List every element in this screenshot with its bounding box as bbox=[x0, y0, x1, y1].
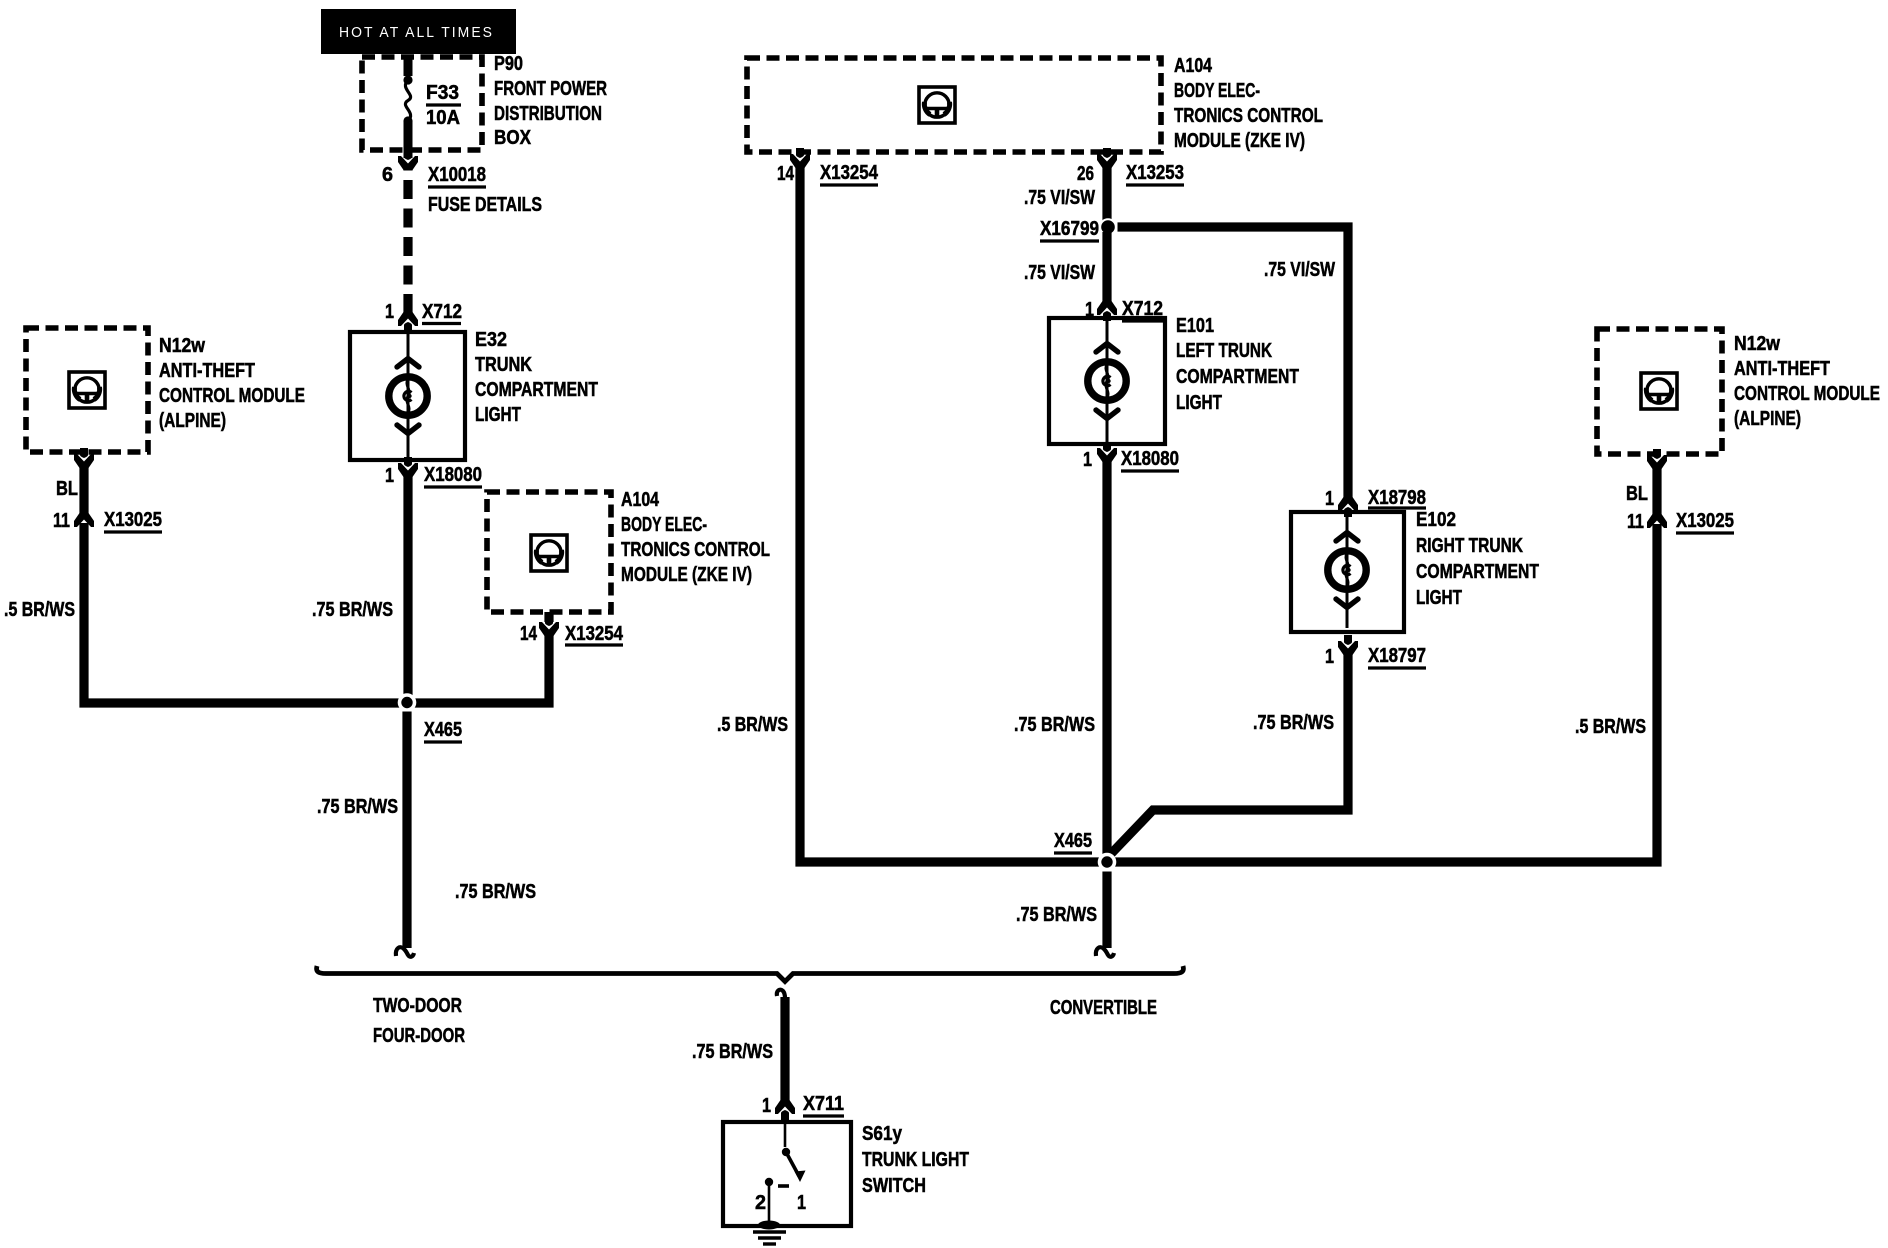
svg-text:1: 1 bbox=[762, 1095, 771, 1117]
bulb E32 lamp symbol bbox=[407, 332, 410, 460]
svg-text:6: 6 bbox=[382, 164, 393, 186]
svg-text:X13025: X13025 bbox=[104, 509, 162, 531]
svg-text:TWO-DOOR: TWO-DOOR bbox=[373, 995, 462, 1017]
svg-text:CONVERTIBLE: CONVERTIBLE bbox=[1050, 997, 1157, 1019]
svg-text:11: 11 bbox=[1627, 511, 1644, 533]
module A104 (mid) icon bbox=[531, 535, 567, 571]
svg-text:1: 1 bbox=[1083, 449, 1092, 471]
svg-text:X18797: X18797 bbox=[1368, 645, 1426, 667]
wire X465 left down to option bracket bbox=[402, 712, 411, 949]
wire X711 stub into switch bbox=[784, 1117, 787, 1124]
connector X712 pin 1 symbol (E32) bbox=[398, 312, 418, 326]
connector X13254 pin 14 symbol (mid) bbox=[539, 622, 559, 636]
svg-text:.5 BR/WS: .5 BR/WS bbox=[4, 599, 75, 621]
svg-text:ANTI-THEFT: ANTI-THEFT bbox=[1734, 358, 1830, 380]
svg-text:.5 BR/WS: .5 BR/WS bbox=[717, 714, 788, 736]
wire end hook (left drop) bbox=[396, 947, 414, 957]
fuse box P90 dashed outline bbox=[362, 57, 482, 150]
svg-text:X465: X465 bbox=[424, 719, 462, 741]
svg-text:.75 BR/WS: .75 BR/WS bbox=[312, 599, 393, 621]
connector symbol below N12w right bbox=[1647, 455, 1667, 469]
svg-text:E32: E32 bbox=[475, 329, 507, 351]
wire E101 to X465 right junction bbox=[1102, 460, 1111, 862]
svg-text:LIGHT: LIGHT bbox=[1176, 392, 1222, 414]
svg-text:2: 2 bbox=[755, 1192, 766, 1214]
svg-text:DISTRIBUTION: DISTRIBUTION bbox=[494, 103, 602, 125]
svg-text:MODULE (ZKE IV): MODULE (ZKE IV) bbox=[621, 564, 752, 586]
svg-text:TRUNK: TRUNK bbox=[475, 354, 532, 376]
svg-text:10A: 10A bbox=[426, 107, 460, 129]
svg-text:.75 VI/SW: .75 VI/SW bbox=[1264, 259, 1335, 281]
connector symbol below N12w left bbox=[74, 454, 94, 468]
svg-text:SWITCH: SWITCH bbox=[862, 1175, 926, 1197]
svg-text:.5 BR/WS: .5 BR/WS bbox=[1575, 716, 1646, 738]
svg-text:FRONT POWER: FRONT POWER bbox=[494, 78, 607, 100]
svg-text:CONTROL MODULE: CONTROL MODULE bbox=[159, 385, 305, 407]
svg-text:X10018: X10018 bbox=[428, 164, 486, 186]
switch S61y box outline bbox=[723, 1122, 851, 1226]
wire E102 to X465 right bbox=[1107, 653, 1348, 858]
wire N12w right to X13025 bbox=[1652, 467, 1661, 515]
svg-text:HOT AT ALL TIMES: HOT AT ALL TIMES bbox=[339, 24, 494, 41]
svg-text:1: 1 bbox=[385, 465, 394, 487]
svg-text:ANTI-THEFT: ANTI-THEFT bbox=[159, 360, 255, 382]
svg-text:X18798: X18798 bbox=[1368, 487, 1426, 509]
wire X13025 left down and to X465 bbox=[84, 523, 403, 703]
svg-text:(ALPINE): (ALPINE) bbox=[159, 410, 226, 432]
bulb E102 box outline bbox=[1291, 512, 1404, 632]
svg-text:X711: X711 bbox=[803, 1093, 844, 1115]
wire A104 top pin14 down to convertible bus bbox=[800, 167, 1102, 862]
svg-text:1: 1 bbox=[385, 301, 394, 323]
wire X13253 to X16799 bbox=[1102, 167, 1111, 222]
connector X18080 pin 1 symbol (E101) bbox=[1097, 448, 1117, 462]
wire X13025 right down to bus bbox=[1111, 524, 1657, 862]
svg-text:BODY ELEC-: BODY ELEC- bbox=[621, 514, 707, 536]
svg-text:.75 BR/WS: .75 BR/WS bbox=[1014, 714, 1095, 736]
svg-text:X18080: X18080 bbox=[1121, 448, 1179, 470]
wire A104 mid pin14 to X465 bbox=[405, 634, 549, 703]
svg-text:COMPARTMENT: COMPARTMENT bbox=[1176, 366, 1299, 388]
svg-text:14: 14 bbox=[520, 623, 538, 645]
svg-text:COMPARTMENT: COMPARTMENT bbox=[475, 379, 598, 401]
node X465 (left) junction bbox=[398, 693, 417, 712]
svg-text:BL: BL bbox=[1626, 483, 1648, 505]
svg-text:FUSE DETAILS: FUSE DETAILS bbox=[428, 194, 542, 216]
svg-text:RIGHT TRUNK: RIGHT TRUNK bbox=[1416, 535, 1523, 557]
svg-text:P90: P90 bbox=[494, 53, 523, 75]
svg-text:BL: BL bbox=[56, 478, 78, 500]
module A104 (top) dashed outline bbox=[747, 58, 1161, 152]
svg-text:X13025: X13025 bbox=[1676, 510, 1734, 532]
svg-text:CONTROL MODULE: CONTROL MODULE bbox=[1734, 383, 1880, 405]
bulb E101 box outline bbox=[1049, 318, 1165, 444]
wire N12w left to X13025 bbox=[79, 466, 88, 514]
power feed banner HOT AT ALL TIMES bbox=[321, 9, 516, 54]
svg-text:A104: A104 bbox=[621, 489, 660, 511]
svg-text:.75 VI/SW: .75 VI/SW bbox=[1024, 187, 1095, 209]
svg-text:.75 VI/SW: .75 VI/SW bbox=[1024, 262, 1095, 284]
svg-text:.75 BR/WS: .75 BR/WS bbox=[692, 1041, 773, 1063]
connector X13025 pin 11 symbol (right) bbox=[1647, 514, 1667, 528]
svg-text:.75 BR/WS: .75 BR/WS bbox=[317, 796, 398, 818]
svg-text:1: 1 bbox=[1325, 646, 1334, 668]
wire X465 right down to bracket bbox=[1102, 872, 1111, 949]
svg-text:N12w: N12w bbox=[1734, 333, 1780, 355]
svg-text:1: 1 bbox=[1325, 488, 1334, 510]
switch S61y contact mechanism bbox=[784, 1124, 787, 1147]
svg-text:.75 BR/WS: .75 BR/WS bbox=[455, 881, 536, 903]
connector X18798 pin 1 symbol bbox=[1338, 497, 1358, 511]
svg-text:14: 14 bbox=[777, 163, 795, 185]
module N12w (left) dashed outline bbox=[26, 328, 148, 452]
wire fuse output dashed to X712 bbox=[403, 169, 412, 313]
connector X18080 pin 1 symbol (E32) bbox=[398, 463, 418, 477]
svg-text:N12w: N12w bbox=[159, 335, 205, 357]
wire E32 to X465 junction bbox=[403, 475, 412, 703]
svg-text:X16799: X16799 bbox=[1040, 218, 1099, 240]
svg-text:COMPARTMENT: COMPARTMENT bbox=[1416, 561, 1539, 583]
svg-text:BOX: BOX bbox=[494, 127, 532, 149]
svg-text:E102: E102 bbox=[1416, 509, 1456, 531]
svg-text:X13254: X13254 bbox=[820, 162, 879, 184]
svg-text:11: 11 bbox=[53, 510, 70, 532]
svg-text:BODY ELEC-: BODY ELEC- bbox=[1174, 80, 1260, 102]
svg-text:(ALPINE): (ALPINE) bbox=[1734, 408, 1801, 430]
svg-text:A104: A104 bbox=[1174, 55, 1213, 77]
svg-text:LIGHT: LIGHT bbox=[1416, 587, 1462, 609]
svg-text:S61y: S61y bbox=[862, 1123, 903, 1145]
svg-text:LIGHT: LIGHT bbox=[475, 404, 521, 426]
module N12w (left) icon bbox=[69, 372, 105, 408]
wire X16799 to E102 branch bbox=[1118, 227, 1349, 498]
module A104 (top) icon bbox=[919, 87, 955, 123]
svg-text:X712: X712 bbox=[422, 301, 462, 323]
svg-text:1: 1 bbox=[797, 1192, 806, 1214]
svg-text:LEFT TRUNK: LEFT TRUNK bbox=[1176, 340, 1272, 362]
svg-text:.75 BR/WS: .75 BR/WS bbox=[1016, 904, 1097, 926]
svg-text:FOUR-DOOR: FOUR-DOOR bbox=[373, 1025, 465, 1047]
svg-text:X18080: X18080 bbox=[424, 464, 482, 486]
wire hook below bracket bbox=[777, 990, 785, 998]
wire X712 stub into E32 bbox=[407, 328, 410, 334]
fuse F33 10A symbol bbox=[404, 57, 413, 76]
ground symbol below S61y bbox=[758, 1221, 780, 1230]
node X465 (right) junction bbox=[1098, 853, 1117, 872]
wire end hook (right drop) bbox=[1096, 947, 1114, 957]
wire bracket to X711 bbox=[780, 997, 789, 1101]
svg-text:E101: E101 bbox=[1176, 315, 1214, 337]
svg-text:TRUNK LIGHT: TRUNK LIGHT bbox=[862, 1149, 969, 1171]
svg-text:MODULE (ZKE IV): MODULE (ZKE IV) bbox=[1174, 130, 1305, 152]
option bracket line (two-door/four-door | convertible) bbox=[317, 966, 1184, 982]
svg-text:26: 26 bbox=[1077, 163, 1094, 185]
connector X13253 pin 26 symbol bbox=[1097, 154, 1117, 168]
wire X16799 down to X712 (E101) bbox=[1102, 232, 1111, 302]
svg-text:X465: X465 bbox=[1054, 830, 1092, 852]
connector X13254 pin 14 symbol (top) bbox=[790, 154, 810, 168]
connector X10018 pin 6 symbol bbox=[398, 156, 418, 170]
connector X13025 pin 11 symbol (left) bbox=[74, 513, 94, 527]
connector X18797 pin 1 symbol bbox=[1338, 641, 1358, 655]
module N12w (right) dashed outline bbox=[1597, 329, 1722, 454]
svg-text:X13253: X13253 bbox=[1126, 162, 1184, 184]
svg-text:TRONICS CONTROL: TRONICS CONTROL bbox=[1174, 105, 1323, 127]
module A104 (mid) dashed outline bbox=[487, 492, 611, 612]
bulb E101 lamp symbol bbox=[1106, 318, 1109, 444]
bulb E32 box outline bbox=[350, 332, 465, 460]
module N12w (right) icon bbox=[1641, 373, 1677, 409]
svg-text:TRONICS CONTROL: TRONICS CONTROL bbox=[621, 539, 770, 561]
svg-text:X13254: X13254 bbox=[565, 623, 624, 645]
svg-text:.75 BR/WS: .75 BR/WS bbox=[1253, 712, 1334, 734]
bulb E102 lamp symbol bbox=[1346, 512, 1349, 628]
connector X711 pin 1 symbol bbox=[775, 1100, 795, 1114]
wire stub A104 mid to connector bbox=[544, 612, 553, 622]
svg-text:F33: F33 bbox=[426, 82, 459, 104]
connector X712 pin 1 symbol (E101) bbox=[1097, 301, 1117, 315]
node X16799 junction dot bbox=[1099, 218, 1117, 236]
